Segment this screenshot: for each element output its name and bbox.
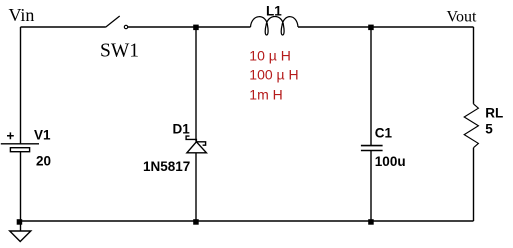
svg-text:V1: V1 [34,127,51,142]
svg-text:10 µ H: 10 µ H [249,47,291,63]
svg-text:Vin: Vin [9,5,35,25]
svg-text:RL: RL [485,106,503,121]
svg-text:100u: 100u [375,154,406,169]
svg-text:Vout: Vout [447,9,477,26]
svg-text:1N5817: 1N5817 [143,159,190,174]
svg-text:C1: C1 [375,125,393,140]
svg-text:SW1: SW1 [100,40,139,61]
svg-text:20: 20 [36,154,51,169]
svg-text:1m H: 1m H [249,86,282,102]
svg-text:5: 5 [485,122,493,137]
svg-text:D1: D1 [173,121,191,136]
svg-text:L1: L1 [266,4,282,19]
svg-text:100 µ H: 100 µ H [249,66,298,82]
